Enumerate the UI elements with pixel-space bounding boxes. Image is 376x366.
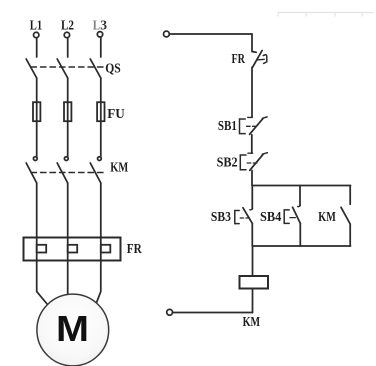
fuse FU pole 2 <box>64 102 71 121</box>
motor M <box>37 294 109 366</box>
switch QS pole 2 blade <box>57 59 67 78</box>
wire FU to KM pole 2 <box>67 121 69 157</box>
SB1 blade top tick <box>262 117 267 118</box>
pushbutton SB2 blade <box>250 154 263 170</box>
contact KM auxiliary stub <box>349 186 351 205</box>
pushbutton SB1 blade <box>250 118 263 134</box>
wire FR to motor pole 3 <box>96 261 101 304</box>
wire FR to motor pole 1 <box>37 261 48 305</box>
svg-text:SB1: SB1 <box>218 119 237 134</box>
SB2 actuator link (dashed) <box>247 162 257 164</box>
contactor KM pole 1 blade <box>26 163 37 183</box>
wire top horizontal <box>170 33 252 35</box>
KM mechanical link (dashed) <box>31 172 104 174</box>
SB2 actuator bracket <box>240 155 246 170</box>
svg-text:QS: QS <box>105 61 121 76</box>
wire branch to coil <box>252 246 254 276</box>
terminal L3 <box>97 32 102 37</box>
wire SB1 to SB2 <box>251 135 253 153</box>
wire KM to FR pole 2 <box>67 183 69 238</box>
wire QS to FU pole 1 <box>36 78 38 102</box>
control bottom terminal <box>167 309 173 315</box>
pushbutton SB2 (NC) fixed tick <box>248 152 253 154</box>
terminal L1 <box>34 32 39 37</box>
FR heater element 1 <box>37 238 47 261</box>
SB4 actuator bracket <box>284 210 289 224</box>
FR contact actuator hook <box>263 55 267 64</box>
SB4 fixed curl <box>298 205 301 207</box>
svg-text:L2: L2 <box>61 19 74 34</box>
FR NC contact blade <box>253 51 263 68</box>
SB1 actuator bracket <box>240 119 246 134</box>
switch QS pole 1 blade <box>26 59 37 78</box>
wire QS to FU pole 3 <box>100 78 102 102</box>
wire bottom horizontal <box>173 312 253 314</box>
pushbutton SB1 (NC) fixed tick <box>248 116 253 118</box>
wire QS to FU pole 2 <box>67 78 69 102</box>
contactor KM pole 1 fixed contact <box>33 157 37 161</box>
coil KM <box>240 276 269 289</box>
wire L3 to QS <box>100 37 102 57</box>
svg-text:SB4: SB4 <box>260 210 281 225</box>
contactor KM pole 3 fixed contact <box>98 157 102 161</box>
wire KM aux to branch bottom <box>349 224 351 246</box>
wire FU to KM pole 3 <box>100 121 102 157</box>
wire parallel branch top <box>252 185 351 187</box>
SB3 actuator link (dashed) <box>240 217 249 219</box>
svg-text:SB2: SB2 <box>217 155 238 170</box>
wire SB3 to branch bottom <box>251 223 253 246</box>
wire FU to KM pole 1 <box>36 121 38 157</box>
svg-text:FR: FR <box>232 52 246 67</box>
svg-text:FU: FU <box>107 107 125 122</box>
switch QS pole 3 blade <box>90 59 101 78</box>
wire SB4 to branch bottom <box>299 223 301 246</box>
wire FR to motor pole 2 <box>67 261 69 296</box>
overload relay FR box <box>24 238 121 261</box>
control top terminal <box>164 31 170 37</box>
wire SB2 to branch node <box>251 171 253 186</box>
pushbutton SB4 (NO) stub <box>299 186 301 206</box>
svg-text:FR: FR <box>127 242 143 257</box>
SB2 blade top tick <box>262 153 267 155</box>
SB3 fixed curl <box>250 208 253 210</box>
FR contact cross tick <box>257 58 264 61</box>
SB4 actuator link (dashed) <box>290 217 295 219</box>
contactor KM pole 2 fixed contact <box>64 157 68 161</box>
FR heater element 2 <box>68 238 78 261</box>
wire down to FR contact <box>252 34 256 52</box>
svg-text:KM: KM <box>318 210 336 225</box>
wire L2 to QS <box>67 38 69 57</box>
pushbutton SB4 blade <box>293 207 301 223</box>
svg-text:M: M <box>56 308 89 349</box>
wire KM to FR pole 3 <box>100 183 102 238</box>
svg-text:KM: KM <box>110 161 128 176</box>
svg-text:SB3: SB3 <box>211 210 231 225</box>
FR heater element 3 <box>101 238 111 261</box>
wire L1 to QS <box>36 38 38 57</box>
faint table edge artifact top-right <box>278 13 373 17</box>
wire FR to SB1 <box>251 67 253 117</box>
pushbutton SB3 (NO) stub <box>251 186 253 210</box>
wire parallel branch bottom <box>252 245 350 247</box>
SB3 actuator bracket <box>235 211 239 224</box>
svg-text:L1: L1 <box>30 19 42 34</box>
svg-text:KM: KM <box>243 315 261 330</box>
SB1 actuator link (dashed) <box>247 125 257 127</box>
contactor KM pole 2 blade <box>57 163 67 183</box>
fuse FU pole 1 <box>33 102 40 121</box>
contactor KM pole 3 blade <box>90 163 101 183</box>
pushbutton SB3 blade <box>243 208 252 224</box>
wire coil to bottom <box>252 289 254 313</box>
wire KM to FR pole 1 <box>36 183 38 238</box>
contact KM auxiliary blade <box>341 207 350 224</box>
QS mechanical link (dashed) <box>31 66 104 68</box>
fuse FU pole 3 <box>97 102 104 121</box>
terminal L2 <box>64 32 69 37</box>
